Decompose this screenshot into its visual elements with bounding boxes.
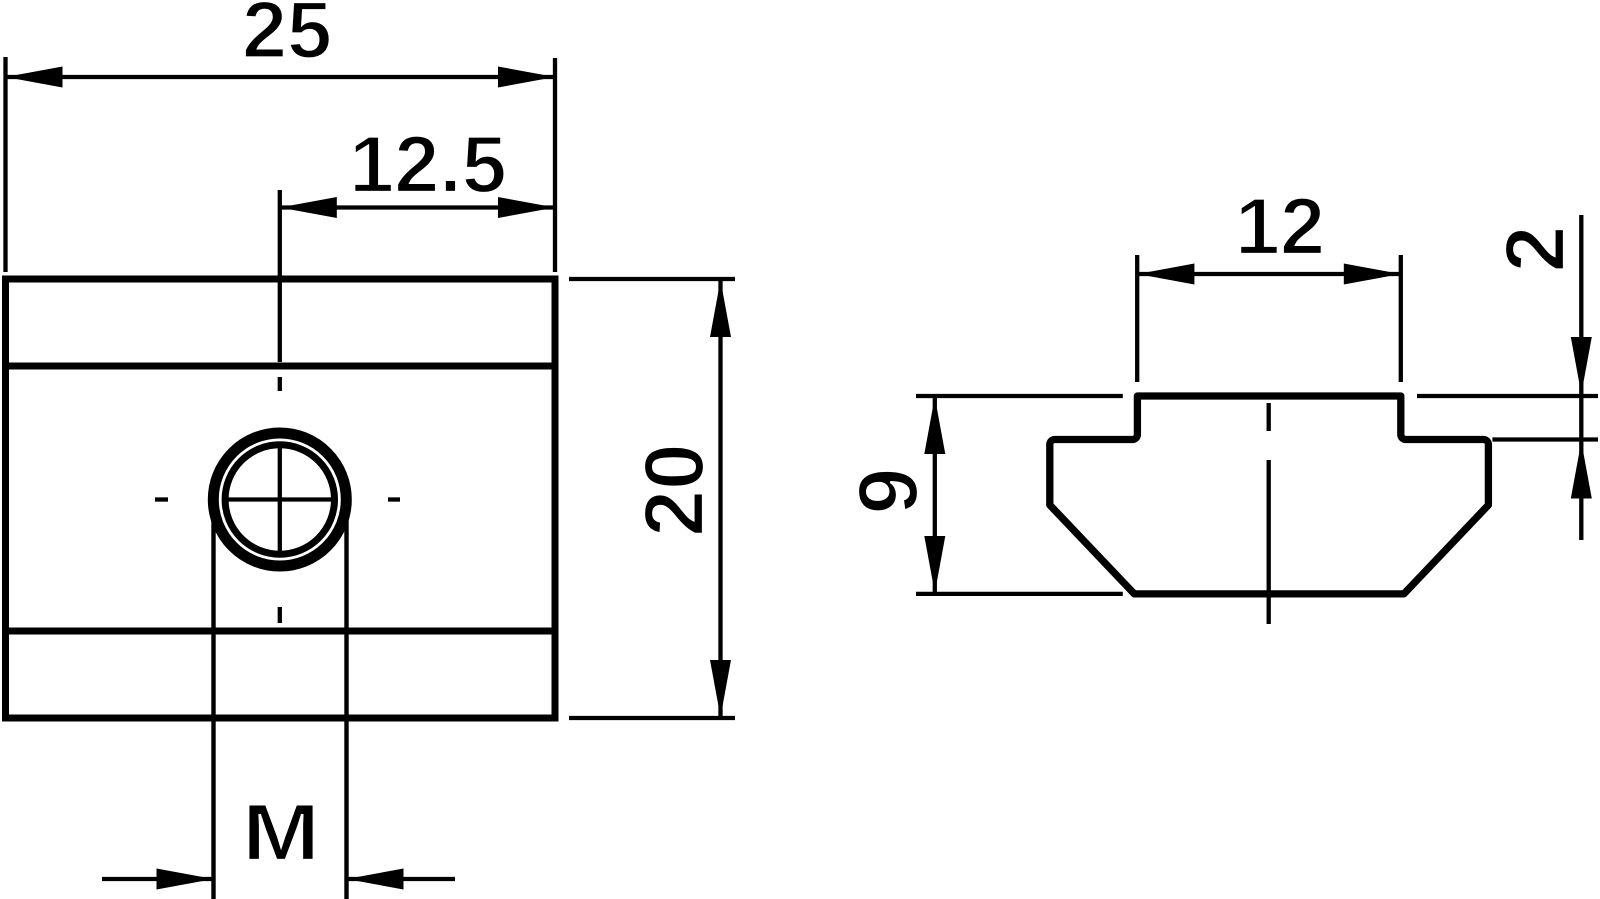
- dim 12 arrow right: [1344, 264, 1401, 285]
- T-nut profile outline: [1050, 396, 1489, 594]
- thread line left: [211, 500, 215, 899]
- dim 2 arrow down (above top ext line): [1571, 337, 1592, 394]
- profile centerline dash top: [1267, 403, 1271, 431]
- svg-text:20: 20: [627, 443, 721, 536]
- dim 9 extension line bottom: [916, 592, 1123, 596]
- thread hole outer circle: [213, 433, 346, 566]
- dim 12 extension line right: [1399, 255, 1403, 382]
- dim 9 line: [933, 397, 937, 593]
- svg-text:M: M: [242, 787, 320, 877]
- hole crosshair vertical: [278, 448, 282, 551]
- dim M line right: [347, 877, 456, 881]
- centerline dash below hole: [278, 607, 282, 623]
- thread line right: [344, 500, 348, 899]
- dim 25 arrow right: [498, 67, 555, 88]
- dim 2 extension line bottom: [1492, 437, 1598, 441]
- dim 20 arrow up: [710, 280, 731, 337]
- dim 12.5 extension line (hole centerline up): [278, 190, 282, 362]
- dim 12.5 arrow left: [280, 197, 337, 218]
- dim 12 line: [1137, 272, 1400, 276]
- centerline dash left: [155, 497, 168, 501]
- svg-text:9: 9: [841, 468, 935, 515]
- hole crosshair horizontal: [227, 497, 332, 501]
- dim 20 arrow down: [710, 660, 731, 717]
- dim 12.5 line: [280, 205, 555, 209]
- svg-text:12: 12: [1235, 182, 1325, 272]
- dim 20 line: [718, 280, 722, 717]
- svg-text:12.5: 12.5: [349, 120, 507, 210]
- dim M arrow right: [347, 869, 404, 890]
- dim 9 extension line top: [916, 394, 1123, 398]
- thread hole inner circle: [225, 445, 334, 554]
- dim 25 arrow left: [6, 67, 63, 88]
- dim 25 extension line right: [553, 58, 557, 272]
- dim 9 arrow down: [924, 536, 945, 593]
- dim 12.5 arrow right: [498, 197, 555, 218]
- dim 2 extension line top: [1417, 394, 1598, 398]
- nut body outline: [6, 279, 556, 718]
- dim 2 arrow up (below bottom ext line): [1571, 442, 1592, 499]
- dim 20 extension line top: [569, 277, 735, 281]
- profile centerline long segment: [1267, 460, 1271, 624]
- nut bottom band edge line: [2, 628, 559, 635]
- centerline dash right: [388, 497, 400, 501]
- centerline dash above hole: [278, 377, 282, 391]
- dim 20 extension line bottom: [569, 716, 735, 720]
- dim 2 line: [1579, 215, 1583, 540]
- nut top band edge line: [2, 363, 559, 370]
- dim 12 extension line left: [1135, 255, 1139, 382]
- dim 25 extension line left: [3, 57, 7, 272]
- svg-text:25: 25: [242, 0, 332, 76]
- dim M line left: [102, 877, 214, 881]
- dim 25 line: [6, 75, 556, 79]
- dim M arrow left: [157, 869, 214, 890]
- svg-text:2: 2: [1488, 226, 1582, 273]
- dim 12 arrow left: [1137, 264, 1194, 285]
- dim 9 arrow up: [924, 397, 945, 454]
